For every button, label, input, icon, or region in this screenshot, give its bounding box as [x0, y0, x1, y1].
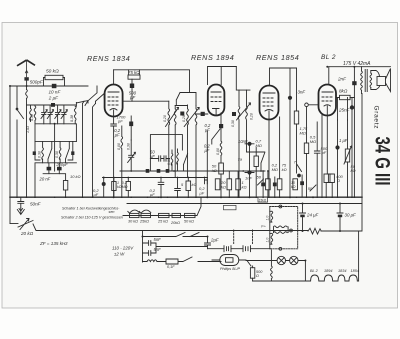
tube U2 RENS1894 — [208, 85, 225, 116]
potentiometer 20k — [18, 219, 33, 230]
cap dot k — [297, 174, 301, 178]
plug pair a — [224, 246, 231, 252]
IFT2 cap — [232, 112, 236, 116]
cap sq g — [261, 183, 265, 187]
svg-text:20kΩ: 20kΩ — [170, 221, 180, 225]
switch IFT — [175, 93, 196, 106]
main chassis bus — [10, 196, 362, 198]
bus corner right — [321, 94, 362, 232]
wire tube3 cathode — [268, 120, 270, 198]
svg-text:20 kΩ: 20 kΩ — [20, 231, 34, 236]
coil small k — [121, 126, 123, 197]
svg-text:50: 50 — [257, 175, 262, 180]
tube U3 RENS1854 — [260, 86, 279, 120]
filter cap 5nF a — [143, 231, 157, 263]
capacitor 500pF screen — [131, 79, 133, 101]
IFT1 winding b2 — [195, 106, 197, 198]
svg-text:30 kΩ: 30 kΩ — [128, 219, 138, 223]
svg-text:25kΩ: 25kΩ — [139, 219, 149, 223]
resistor 10k v g — [293, 179, 298, 190]
cap small left — [33, 151, 36, 155]
secondary bus — [127, 203, 362, 205]
svg-text:0,28: 0,28 — [182, 115, 186, 122]
svg-text:1,03: 1,03 — [26, 126, 30, 133]
svg-text:0,38: 0,38 — [55, 151, 59, 158]
resistor 20k — [172, 213, 181, 217]
svg-text:MΩ: MΩ — [300, 131, 306, 136]
lower band top line — [35, 140, 76, 142]
cathode block — [129, 122, 133, 127]
resistor 75k — [128, 75, 140, 79]
svg-text:20 nF: 20 nF — [39, 177, 51, 182]
switch grid a — [88, 86, 97, 103]
switch S2a — [48, 141, 52, 162]
capacitor 25nF — [350, 105, 354, 109]
svg-text:25 kΩ: 25 kΩ — [157, 219, 168, 223]
wire tube4 anode — [328, 67, 330, 85]
IFT1 winding a — [168, 101, 170, 171]
svg-text:50 kΩ: 50 kΩ — [184, 219, 194, 223]
IFT1 winding b — [187, 105, 189, 178]
svg-text:0,1F: 0,1F — [167, 265, 175, 269]
svg-text:1 μF: 1 μF — [339, 138, 348, 143]
cap sq i — [300, 181, 304, 185]
svg-text:kΩ: kΩ — [212, 168, 217, 173]
dial lamp oval — [212, 255, 246, 266]
svg-text:μF: μF — [114, 133, 120, 138]
svg-text:MΩ: MΩ — [310, 139, 316, 144]
svg-text:MΩ: MΩ — [122, 185, 128, 189]
svg-text:Ω: Ω — [256, 274, 259, 278]
dropper resistor 500 — [247, 261, 253, 282]
trimmer C1 — [41, 105, 47, 124]
svg-text:Schalter 2 bei 110-125 V gesch: Schalter 2 bei 110-125 V geschlossen — [61, 216, 123, 220]
screen feed line — [114, 70, 190, 93]
resistor 400 pair — [324, 174, 328, 183]
coil L5 — [59, 141, 61, 162]
IFT1 arrow b — [184, 108, 199, 127]
left rail — [9, 86, 11, 224]
wire x92.5 — [93, 104, 96, 198]
resistor v e — [266, 179, 271, 190]
resistor 50k chain — [185, 213, 196, 217]
bottom left wire — [10, 223, 18, 225]
primary coil b — [270, 233, 273, 244]
heater chain — [305, 275, 358, 281]
svg-text:kΩ: kΩ — [291, 185, 296, 189]
svg-text:50nF: 50nF — [30, 202, 42, 207]
svg-text:μF: μF — [199, 191, 205, 196]
svg-text:24 μF: 24 μF — [306, 213, 319, 218]
trimmer below tube1 — [128, 140, 136, 171]
svg-text:ZF = 135 kHz: ZF = 135 kHz — [39, 241, 68, 246]
svg-text:30 μF: 30 μF — [345, 213, 357, 218]
switch mid — [184, 154, 188, 172]
cap 5k pair — [175, 178, 181, 198]
resistor v c — [227, 179, 232, 190]
trimmer C4 — [61, 105, 67, 124]
svg-text:kΩ: kΩ — [192, 182, 197, 187]
svg-text:0,38: 0,38 — [231, 120, 235, 127]
capacitor 2uF block — [51, 103, 55, 107]
svg-text:10 kΩ: 10 kΩ — [70, 174, 81, 179]
coil L4 — [42, 141, 44, 162]
svg-text:RENS 1854: RENS 1854 — [256, 53, 299, 62]
wire x82.5 — [83, 101, 85, 197]
coil L1 — [26, 86, 28, 197]
svg-text:1854: 1854 — [351, 269, 359, 273]
output tr solid edge — [269, 207, 271, 249]
series caps — [150, 156, 169, 161]
svg-text:0,38: 0,38 — [30, 114, 34, 121]
speaker LS — [376, 69, 391, 92]
switch S1 bypass — [128, 210, 140, 213]
grid cap tube2 — [201, 112, 205, 116]
svg-text:2 μF: 2 μF — [48, 96, 59, 101]
potentiometer 50k — [347, 120, 349, 149]
switch arm t2 — [207, 129, 220, 197]
svg-text:0,88: 0,88 — [117, 143, 121, 150]
svg-text:15kΩ: 15kΩ — [259, 198, 267, 202]
svg-text:RENS 1834: RENS 1834 — [87, 54, 130, 63]
resistor 20k v b — [215, 179, 220, 190]
cap 3nF — [288, 96, 292, 100]
output tr dashed box — [270, 207, 298, 249]
svg-text:110 - 220V: 110 - 220V — [112, 246, 134, 251]
output transformer T1 — [361, 67, 376, 94]
svg-text:5nF: 5nF — [154, 237, 162, 242]
svg-text:34 G III: 34 G III — [371, 137, 395, 186]
AVC line — [120, 170, 265, 172]
IFT1 winding a2 — [174, 106, 176, 178]
cap sq h — [273, 183, 277, 187]
cap 2uF mains — [205, 237, 211, 249]
choke coil — [147, 260, 157, 262]
primary coil a — [270, 211, 273, 222]
resistor 1k v — [112, 182, 116, 191]
svg-text:BL 2: BL 2 — [310, 269, 319, 273]
lamp La1 — [277, 256, 285, 264]
svg-text:μF: μF — [93, 192, 99, 197]
anode bridge tube3 — [270, 68, 297, 96]
dashed link a — [233, 230, 235, 245]
resistor 30k — [130, 213, 140, 217]
voice coil winding — [274, 226, 289, 234]
svg-text:pF: pF — [129, 95, 135, 100]
svg-text:2nF: 2nF — [337, 77, 347, 82]
caps on avc line — [146, 169, 150, 173]
coil mid — [171, 150, 173, 171]
lamp La2 — [290, 256, 298, 264]
resistor 1k v d — [236, 179, 241, 190]
resistor chain wire — [123, 197, 201, 215]
tube U4 BL2 — [319, 85, 337, 116]
trimmer C2 — [47, 105, 53, 124]
cap small right — [71, 151, 74, 155]
resistor 5k v — [186, 181, 191, 191]
svg-text:pF: pF — [117, 119, 123, 124]
capacitor 500pF (antenna) — [24, 77, 28, 80]
antenna — [17, 60, 35, 77]
filter cap 5nF b — [143, 243, 208, 255]
capacitor 2nF — [352, 81, 356, 85]
svg-text:0,38: 0,38 — [37, 151, 41, 158]
svg-text:500pF: 500pF — [30, 80, 44, 85]
svg-text:±2 W: ±2 W — [114, 252, 125, 257]
svg-text:3nF: 3nF — [298, 90, 306, 95]
plug pair b — [243, 246, 251, 252]
trimmer C3 — [55, 105, 61, 124]
svg-text:0,28: 0,28 — [163, 115, 167, 122]
IFT1 cap mid — [180, 112, 184, 116]
svg-text:pF: pF — [321, 150, 327, 155]
line mid — [103, 177, 208, 179]
coil af — [220, 141, 222, 163]
svg-text:BL 2: BL 2 — [321, 54, 336, 61]
coil L1b — [30, 106, 32, 122]
capacitor 50nF to ground — [18, 197, 24, 208]
wires top small right — [338, 98, 348, 121]
svg-text:0,88: 0,88 — [216, 148, 220, 155]
svg-text:MΩ: MΩ — [272, 167, 278, 172]
anode line tube1 — [123, 100, 169, 102]
svg-text:kΩ: kΩ — [351, 168, 356, 173]
svg-text:F≈: F≈ — [261, 225, 265, 229]
resistor v mid — [255, 148, 257, 157]
svg-text:10nF: 10nF — [238, 139, 248, 144]
switch t23 — [261, 153, 265, 172]
resistor 1,75M — [296, 68, 298, 111]
wire tube4 left — [321, 114, 323, 197]
wire bottom long — [33, 224, 308, 231]
svg-text:1894: 1894 — [324, 269, 332, 273]
resistor 15k on bus — [258, 197, 268, 202]
band line bottom — [35, 124, 76, 171]
svg-text:0,88: 0,88 — [167, 158, 171, 165]
coil mid2 — [177, 149, 179, 171]
cap 1uF dot — [335, 145, 339, 149]
terminal circles — [279, 205, 282, 208]
band line top — [27, 103, 77, 107]
svg-text:kΩ: kΩ — [221, 185, 226, 190]
resistor 8k — [336, 97, 354, 99]
link to tube1 grid — [76, 101, 88, 106]
svg-text:0,38: 0,38 — [70, 115, 74, 122]
mains switch line — [143, 233, 208, 237]
wire antenna down — [26, 81, 28, 86]
resistor 10k v — [63, 181, 67, 191]
ground — [17, 208, 24, 215]
svg-text:25nF: 25nF — [338, 108, 351, 113]
switch S2 bypass — [139, 210, 151, 213]
field coil zigzag — [308, 228, 322, 234]
svg-text:0,38: 0,38 — [126, 143, 130, 150]
svg-text:1834: 1834 — [338, 269, 346, 273]
switch S2b — [66, 141, 70, 162]
box 50uF cluster — [150, 135, 182, 171]
resistor 25k a — [141, 213, 151, 217]
tube U1 RENS1834 — [105, 85, 123, 117]
cap dot j — [102, 182, 106, 186]
IFT2 winding a — [238, 90, 240, 197]
cap 10nF dot b — [247, 170, 251, 174]
resistor mid v — [126, 182, 130, 191]
electrolytic 30uF — [337, 204, 343, 232]
capacitor 10nF on rail — [52, 84, 57, 88]
IFT2 arrow — [237, 103, 251, 120]
switch S ant — [17, 86, 24, 197]
voltage selector line — [208, 248, 271, 250]
svg-text:1,0: 1,0 — [265, 216, 269, 221]
IFT1 arrow a — [166, 108, 179, 127]
resistor 50k v — [219, 163, 224, 174]
svg-text:50 kΩ: 50 kΩ — [46, 69, 59, 75]
switch 7 mid — [297, 165, 302, 172]
cap 1700pF — [111, 117, 117, 198]
wire top input rail — [10, 85, 88, 87]
switch grid b — [96, 94, 105, 104]
wire to IFT2 — [236, 67, 250, 91]
wire tube1 top — [113, 70, 115, 85]
resistor 50k bridge — [44, 78, 65, 87]
svg-text:0,28: 0,28 — [250, 113, 254, 120]
grid cap circle tube4 — [305, 103, 309, 107]
svg-text:kΩ: kΩ — [282, 167, 287, 172]
dashed link b — [252, 230, 254, 245]
svg-text:7a: 7a — [238, 157, 243, 162]
svg-text:10 nF: 10 nF — [49, 90, 62, 95]
tube4 grid wire — [307, 105, 319, 197]
svg-text:Philips 8L/P: Philips 8L/P — [220, 267, 241, 271]
coil L3 right — [74, 106, 76, 124]
grid block cap — [219, 124, 223, 128]
svg-text:sen: sen — [109, 210, 115, 214]
svg-text:1,0: 1,0 — [265, 238, 269, 243]
electrolytic 24uF — [300, 204, 306, 232]
mains lower line — [143, 257, 222, 264]
svg-text:kΩ: kΩ — [242, 185, 247, 190]
heater coil small — [271, 250, 273, 281]
svg-text:μF: μF — [149, 192, 155, 197]
svg-text:175 V 42mA: 175 V 42mA — [343, 61, 371, 67]
svg-text:8kΩ: 8kΩ — [339, 89, 348, 94]
bottom caps row — [35, 163, 76, 197]
svg-text:Graetz: Graetz — [373, 106, 380, 130]
anode rail right — [329, 66, 391, 68]
svg-text:RENS 1894: RENS 1894 — [191, 53, 234, 62]
svg-text:2μF: 2μF — [210, 238, 219, 243]
svg-text:5nF: 5nF — [154, 247, 162, 252]
resistor 25k b — [159, 213, 170, 217]
lamp wires — [246, 261, 305, 282]
coil L2 left — [34, 106, 36, 124]
anode bridge tube2 — [208, 67, 237, 85]
cap 10nF dot a — [247, 142, 251, 146]
IFT2 winding b — [246, 90, 265, 152]
svg-text:1nF: 1nF — [245, 176, 252, 181]
svg-text:75 kΩ: 75 kΩ — [128, 70, 140, 75]
resistor v f — [277, 179, 282, 190]
svg-text:μF: μF — [204, 148, 210, 153]
